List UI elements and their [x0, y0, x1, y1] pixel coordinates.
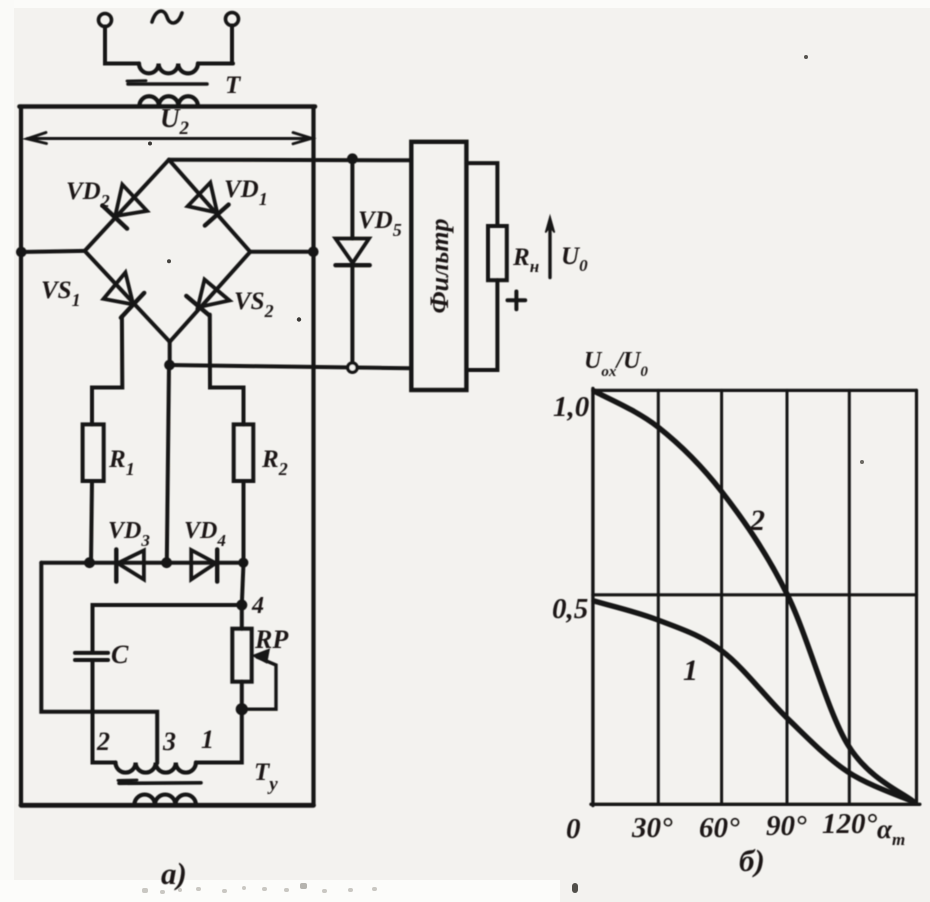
node center rail junction: [162, 558, 172, 568]
graph axes box: [591, 389, 594, 806]
svg-text:2: 2: [96, 727, 110, 756]
svg-text:RP: RP: [254, 625, 289, 654]
node VD5 top junction: [348, 154, 358, 164]
scan smudges: [142, 55, 864, 894]
wire right terminal down: [198, 26, 233, 64]
potentiometer RP wiper arrow: [243, 657, 276, 709]
U0 output arrow: [548, 226, 551, 278]
graph gridline 60deg: [720, 390, 723, 804]
diode VD3: [118, 550, 144, 579]
graph gridline 30deg: [657, 390, 660, 804]
diode VD4: [191, 550, 216, 580]
svg-text:Фильтр: Фильтр: [425, 218, 454, 313]
bridge arm bottom-right (VS2 arm wire): [170, 252, 251, 342]
svg-text:1: 1: [201, 725, 214, 754]
transformer Tу network winding: [134, 795, 196, 805]
node 4: [237, 600, 247, 610]
outer box right wire: [311, 107, 315, 806]
svg-text:а): а): [161, 856, 187, 891]
node left AC junction: [17, 247, 27, 257]
wire bottom output to filter: [170, 365, 412, 368]
svg-text:3: 3: [162, 727, 176, 756]
svg-text:1: 1: [683, 654, 698, 687]
graph gridline 90deg: [786, 390, 789, 804]
bridge arm top-left (VD2 arm wire): [85, 160, 169, 251]
wire capacitor to winding terminal 2: [93, 660, 116, 763]
outer box bottom wire: [21, 803, 314, 808]
svg-text:120°: 120°: [822, 808, 878, 840]
wire filter output top to load: [466, 163, 497, 226]
outer box left wire: [19, 107, 23, 806]
wire left AC node to bridge: [21, 251, 85, 252]
diode VD5 anode wire: [350, 159, 354, 239]
wire node 4 to capacitor branch: [93, 605, 242, 651]
transformer T secondary winding: [139, 96, 198, 106]
thyristor VS1 gate wire: [92, 317, 122, 425]
potentiometer RP: [232, 629, 251, 682]
wire RP bottom node: [240, 682, 244, 710]
diode VD2: [115, 185, 147, 217]
wire R2 down to VD4 rail: [242, 481, 246, 563]
node R1 rail junction: [85, 558, 95, 568]
transformer Tу core: [119, 781, 201, 785]
node bridge bottom junction: [165, 360, 175, 370]
transformer T primary terminal right: [226, 13, 239, 26]
wire left terminal down: [105, 27, 139, 64]
bridge arm top-right (VD1 arm wire): [169, 160, 250, 252]
svg-text:4: 4: [251, 593, 264, 619]
transformer T primary winding: [139, 64, 198, 74]
svg-text:30°: 30°: [631, 812, 673, 844]
wire RP node to winding terminal 1: [196, 709, 242, 762]
thyristor VS1: [104, 273, 134, 305]
capacitor C: [75, 651, 108, 655]
transformer T core: [128, 82, 207, 86]
AC source sine symbol: [152, 11, 182, 23]
graph gridline 120deg: [848, 390, 851, 804]
wire node 4 down to potentiometer: [240, 605, 244, 629]
diode VD5: [336, 239, 370, 264]
wire rail right corner down to node 4: [242, 563, 244, 605]
bridge arm bottom-left (VS1 arm wire): [85, 251, 170, 342]
resistor R2: [234, 424, 254, 481]
node right AC junction: [309, 247, 319, 257]
svg-text:90°: 90°: [766, 810, 807, 842]
thyristor VS2: [198, 280, 230, 308]
plus polarity mark: [508, 292, 526, 310]
outer box top wire (U2 winding rail): [20, 104, 316, 109]
diode VD1: [188, 183, 218, 213]
svg-text:1,0: 1,0: [553, 391, 589, 423]
node R2 rail junction: [239, 558, 248, 567]
wire bridge top output to filter: [169, 158, 412, 163]
svg-text:C: C: [111, 640, 129, 669]
wire bridge bottom vertex down: [168, 342, 172, 365]
filter block (Фильтр): [411, 142, 466, 390]
resistor R1: [83, 424, 104, 481]
wire VD3 rail left leg to winding tap 3: [41, 563, 157, 763]
svg-text:60°: 60°: [699, 812, 740, 844]
svg-text:2: 2: [749, 504, 765, 537]
wire R1 to VD3 rail: [91, 481, 92, 563]
resistor RH: [488, 226, 507, 280]
wire load bottom to filter: [466, 280, 497, 370]
svg-text:T: T: [225, 72, 242, 99]
control rectifier rail (VD3 VD4 wire): [41, 561, 243, 565]
thyristor VS2 gate wire: [210, 315, 244, 425]
transformer T primary terminal left: [99, 14, 112, 27]
U2 dimension arrow: [28, 137, 312, 140]
graph gridline 0,5: [593, 593, 917, 596]
node VD5 bottom junction (open): [348, 363, 357, 372]
curve 2: [594, 391, 914, 802]
wire right AC node to bridge: [250, 250, 313, 254]
transformer Tу control winding: [116, 763, 196, 773]
wire bridge bottom to control rectifier center: [167, 366, 169, 563]
svg-text:б): б): [739, 843, 765, 878]
node RP bottom junction: [236, 704, 247, 715]
svg-text:0,5: 0,5: [552, 593, 588, 625]
svg-text:0: 0: [566, 813, 581, 845]
curve 1: [594, 601, 914, 802]
